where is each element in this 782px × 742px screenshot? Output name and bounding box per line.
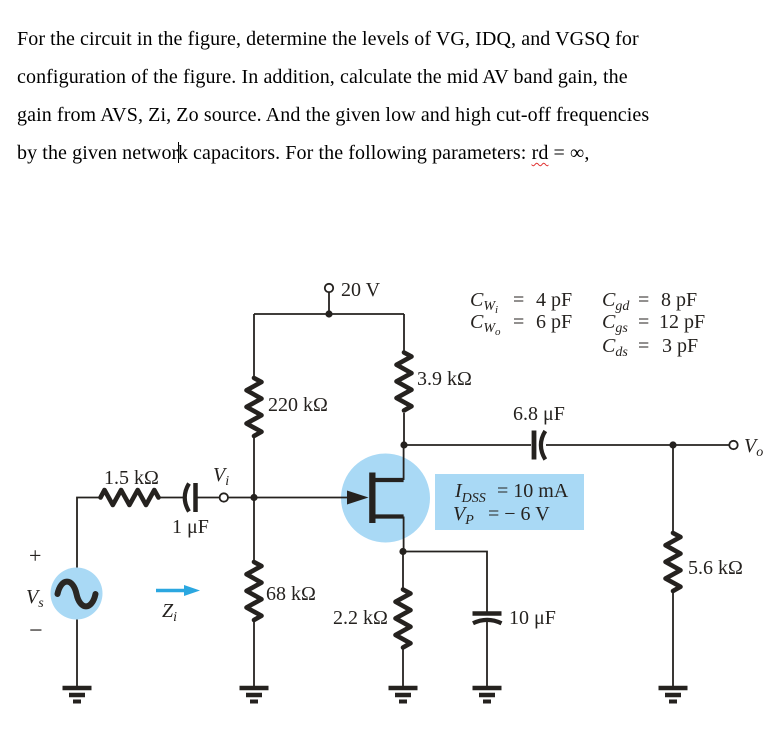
wire 20V stub <box>328 292 330 314</box>
svg-text:6.8 μF: 6.8 μF <box>513 403 565 425</box>
svg-text:+: + <box>29 543 41 568</box>
ground (2.2k) <box>389 688 418 702</box>
wire drain to cap <box>404 444 531 446</box>
terminal Vi <box>220 493 228 501</box>
wire source vertical <box>403 517 405 552</box>
wire source to 10uF <box>403 552 487 613</box>
svg-text:3 pF: 3 pF <box>662 335 698 357</box>
svg-text:1.5 kΩ: 1.5 kΩ <box>104 467 159 489</box>
capacitor 6.8uF <box>534 431 545 460</box>
ground (10uF) <box>473 688 502 702</box>
wire Vs corner <box>77 498 100 568</box>
wire 220k top <box>253 314 255 378</box>
terminal Vo <box>729 441 737 449</box>
junction node top rail <box>325 310 332 317</box>
svg-text:20 V: 20 V <box>341 279 381 301</box>
svg-text:=: = <box>638 289 649 311</box>
svg-text:Vs: Vs <box>26 586 44 611</box>
svg-text:68 kΩ: 68 kΩ <box>266 583 316 605</box>
svg-text:=: = <box>513 311 524 333</box>
svg-text:= 10 mA: = 10 mA <box>497 480 569 502</box>
svg-text:Vo: Vo <box>744 435 763 460</box>
resistor 220k <box>247 378 262 436</box>
svg-text:Zi: Zi <box>162 600 177 625</box>
capacitor 10uF <box>473 614 502 624</box>
svg-text:4 pF: 4 pF <box>536 289 572 311</box>
ground (5.6k) <box>659 688 688 702</box>
svg-text:=: = <box>513 289 524 311</box>
svg-text:=: = <box>638 311 649 333</box>
capacitor 1uF <box>185 483 196 512</box>
wire 68k top <box>253 498 255 564</box>
junction node output <box>669 441 676 448</box>
wire cap to Vo <box>546 444 730 446</box>
wire top rail <box>254 313 404 315</box>
wire drain vertical <box>403 445 405 480</box>
wire 3.9k bottom <box>403 413 405 445</box>
wire 10uF bottom <box>486 622 488 686</box>
resistor 2.2k <box>396 590 411 648</box>
transistor highlight circle <box>341 454 430 543</box>
svg-text:2.2 kΩ: 2.2 kΩ <box>333 607 388 629</box>
svg-text:Cgs: Cgs <box>602 311 628 336</box>
svg-text:3.9 kΩ: 3.9 kΩ <box>417 368 472 390</box>
svg-text:1 μF: 1 μF <box>172 516 209 538</box>
svg-text:5.6 kΩ: 5.6 kΩ <box>688 557 743 579</box>
terminal 20V <box>325 284 333 292</box>
parameter box <box>435 474 584 530</box>
svg-text:220 kΩ: 220 kΩ <box>268 394 328 416</box>
svg-text:−: − <box>29 618 43 644</box>
wire 5.6k top <box>672 445 674 533</box>
ground (68k) <box>240 688 269 702</box>
source Vs <box>51 568 103 620</box>
wire 220k bottom <box>253 436 255 498</box>
junction node drain <box>400 441 407 448</box>
svg-text:= − 6 V: = − 6 V <box>488 503 550 525</box>
wire Vs bottom <box>76 620 78 687</box>
transistor Q1 JFET <box>347 473 404 524</box>
wire 3.9k top <box>403 314 405 352</box>
resistor 3.9k <box>397 353 412 411</box>
resistor 5.6k <box>666 533 681 591</box>
junction node gate <box>250 494 257 501</box>
junction node source <box>399 548 406 555</box>
svg-text:6 pF: 6 pF <box>536 311 572 333</box>
resistor 1.5k <box>101 490 159 505</box>
wire 1.5k to cap <box>159 497 184 499</box>
svg-text:=: = <box>638 335 649 357</box>
wire 68k bottom <box>253 618 255 686</box>
wire cap to Vi <box>197 497 220 499</box>
svg-text:8 pF: 8 pF <box>661 289 697 311</box>
wire 2.2k bottom <box>402 647 404 686</box>
wire 5.6k bottom <box>672 592 674 686</box>
svg-text:Cds: Cds <box>602 335 628 360</box>
wire 2.2k top <box>402 552 404 591</box>
resistor 68k <box>247 562 262 620</box>
ground (Vs) <box>63 688 92 702</box>
wire gate <box>228 497 364 499</box>
svg-text:10 μF: 10 μF <box>509 607 556 629</box>
arrow Zi <box>156 585 200 596</box>
svg-text:12 pF: 12 pF <box>659 311 705 333</box>
svg-text:Vi: Vi <box>213 464 229 489</box>
